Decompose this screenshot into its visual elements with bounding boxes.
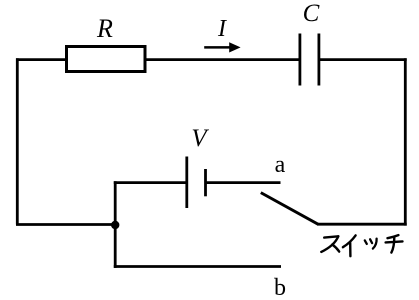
svg-text:R: R	[96, 14, 113, 43]
svg-text:C: C	[303, 0, 320, 27]
wire: horizontal to battery negative plate	[114, 181, 187, 184]
battery V: short plate	[204, 169, 207, 196]
svg-text:V: V	[191, 125, 209, 152]
wire: bottom horizontal to terminal b	[114, 265, 281, 268]
wire: switch elbow to right side	[317, 223, 407, 226]
resistor R	[67, 47, 146, 72]
node: junction dot	[111, 221, 119, 229]
capacitor C: left plate	[298, 34, 301, 86]
capacitor C: right plate	[317, 34, 320, 86]
svg-text:I: I	[217, 16, 227, 42]
switch blade (open)	[261, 193, 318, 225]
current arrow	[204, 46, 231, 49]
wire: top horizontal from capacitor to right corner	[319, 58, 407, 61]
label スイッチ: katakana CHI	[386, 235, 403, 253]
wire: top-left horizontal from left corner to resistor	[16, 58, 66, 61]
svg-text:b: b	[274, 275, 286, 300]
wire: battery to switch terminal a	[206, 181, 281, 184]
wire: junction down to b branch	[114, 225, 117, 268]
wire: left vertical side	[16, 58, 19, 224]
battery V: long plate	[185, 157, 188, 209]
wire: junction up to battery level	[114, 181, 117, 224]
svg-text:a: a	[275, 152, 286, 178]
label スイッチ: katakana small TSU	[365, 239, 377, 249]
label スイッチ: katakana SU	[321, 236, 339, 252]
wire: right vertical side	[404, 58, 407, 225]
label スイッチ: katakana I	[343, 235, 356, 256]
wire: bottom-left horizontal to junction	[16, 223, 118, 226]
wire: top horizontal from resistor to capacitor	[145, 58, 300, 61]
